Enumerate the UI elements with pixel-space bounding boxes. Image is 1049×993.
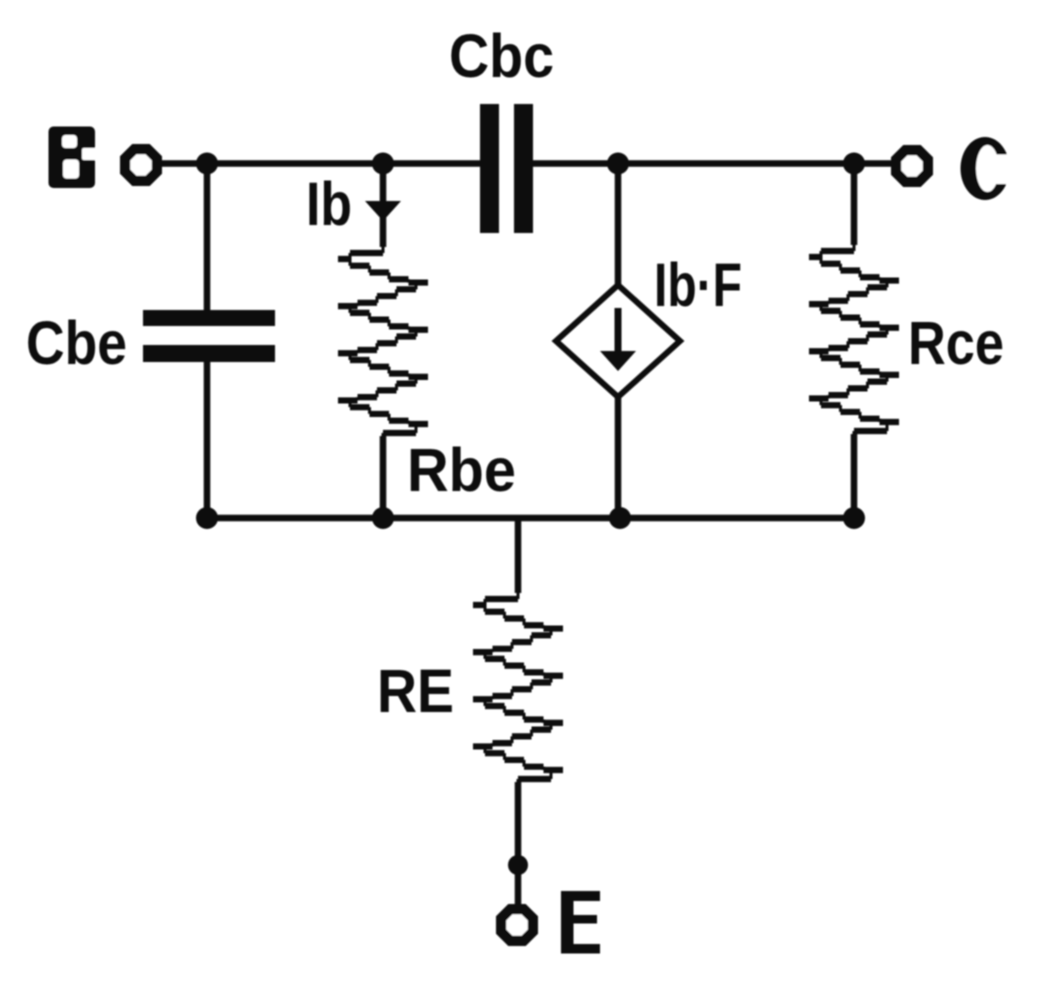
svg-text:Ib: Ib (306, 170, 352, 238)
wire left branch upper (node to Cbe top plate) (204, 164, 211, 312)
label E (561, 891, 600, 954)
svg-text:Ib·F: Ib·F (654, 251, 742, 319)
wire top rail left segment (B terminal to Cbc left plate) (158, 160, 480, 167)
controlled current source diamond (556, 285, 680, 397)
wire bottom rail (207, 515, 854, 522)
svg-text:Cbc: Cbc (449, 22, 554, 90)
svg-text:Cbe: Cbe (26, 309, 127, 377)
wire current-source branch lower (diamond to bottom rail) (615, 396, 622, 518)
resistor Rbe (338, 253, 428, 433)
node dot right of Cbc (607, 153, 629, 175)
node dot left of C terminal (843, 153, 865, 175)
resistor RE (473, 599, 563, 779)
svg-text:Rbe: Rbe (407, 436, 516, 504)
wire current-source branch upper (top rail to diamond) (615, 164, 622, 287)
capacitor Cbe (143, 310, 275, 362)
node dot bottom of Rce (843, 507, 865, 529)
terminal E circle (496, 904, 538, 946)
wire Rbe branch upper (top rail through Ib arrow to resistor) (380, 164, 387, 248)
node dot bottom of Rbe (372, 507, 394, 529)
terminal B circle (120, 144, 162, 186)
svg-text:RE: RE (377, 657, 454, 725)
resistor Rce (809, 251, 899, 431)
node dot bottom-left (196, 507, 218, 529)
wire left branch lower (Cbe bottom plate to bottom rail) (204, 361, 211, 518)
wire Rce branch upper (top rail to resistor) (851, 164, 858, 246)
node dot top of Rbe (372, 153, 394, 175)
node dot B-rail junction (196, 153, 218, 175)
label C (961, 137, 1014, 200)
capacitor Cbc (480, 104, 533, 233)
wire Rbe branch lower (resistor to bottom rail) (380, 436, 387, 518)
terminal C circle (891, 145, 933, 187)
current source arrow (600, 308, 636, 371)
wire top rail right segment (Cbc right plate to C terminal) (533, 160, 896, 167)
wire Rce branch lower (resistor to bottom rail) (851, 434, 858, 518)
node dot bottom of current source (609, 507, 631, 529)
wire RE branch lower (resistor to E terminal) (515, 782, 522, 906)
label B (49, 127, 98, 189)
svg-text:Rce: Rce (908, 309, 1004, 377)
node dot above E terminal (508, 855, 528, 875)
Ib current arrow on Rbe branch (365, 201, 401, 221)
wire RE branch upper (bottom rail to resistor) (515, 518, 522, 593)
